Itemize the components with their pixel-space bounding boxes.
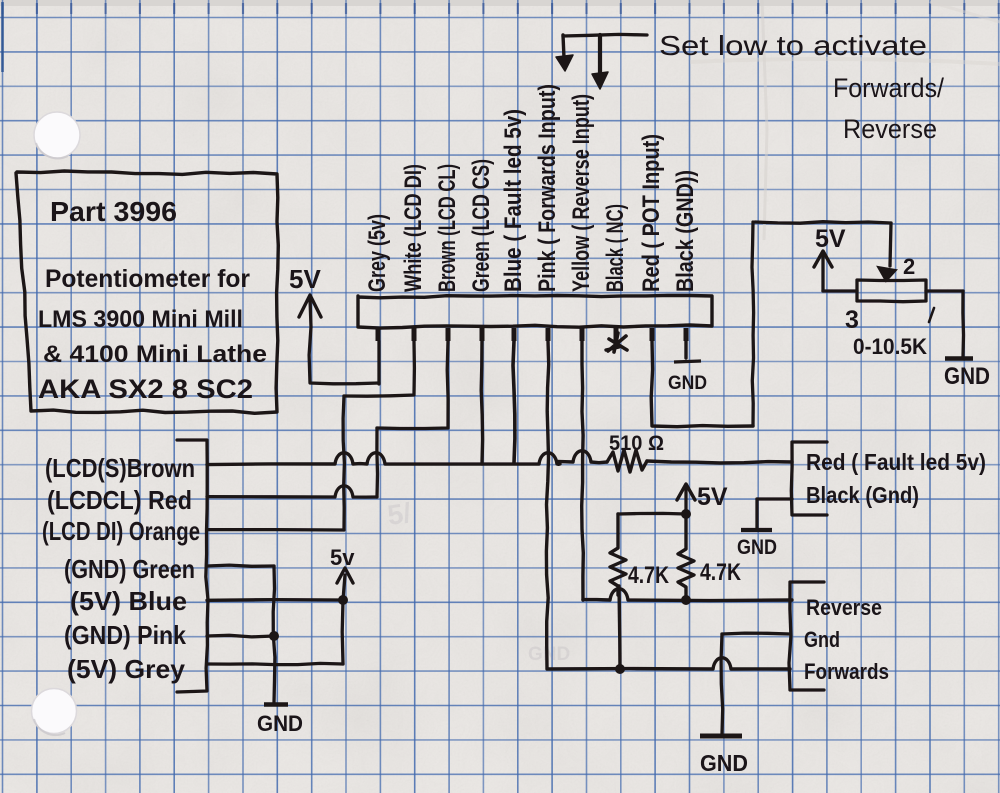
svg-text:Red ( POT Input): Red ( POT Input) [638, 134, 665, 292]
svg-text:2: 2 [903, 254, 915, 279]
svg-text:Black ( NC): Black ( NC) [602, 204, 629, 292]
svg-text:Black (Gnd): Black (Gnd) [806, 482, 919, 508]
svg-text:(LCD(S)Brown: (LCD(S)Brown [45, 453, 195, 483]
svg-text:AKA SX2 8 SC2: AKA SX2 8 SC2 [38, 374, 253, 404]
svg-text:0-10.5K: 0-10.5K [853, 334, 927, 359]
svg-text:Brown (LCD CL): Brown (LCD CL) [434, 164, 461, 292]
svg-text:(LCD DI) Orange: (LCD DI) Orange [42, 516, 200, 546]
svg-text:(GND) Pink: (GND) Pink [64, 620, 186, 650]
svg-text:Potentiometer for: Potentiometer for [45, 265, 250, 293]
svg-text:3: 3 [845, 306, 859, 334]
svg-text:GND: GND [737, 536, 777, 559]
svg-text:Reverse: Reverse [843, 114, 937, 144]
svg-text:Red ( Fault led 5v): Red ( Fault led 5v) [806, 449, 986, 475]
svg-text:LMS 3900 Mini Mill: LMS 3900 Mini Mill [38, 306, 243, 333]
svg-text:Reverse: Reverse [806, 595, 882, 620]
svg-text:(5V) Blue: (5V) Blue [70, 586, 187, 616]
svg-text:4.7K: 4.7K [700, 559, 742, 586]
svg-text:Blue ( Fault led 5v): Blue ( Fault led 5v) [500, 109, 527, 292]
svg-text:Black (GND)): Black (GND)) [672, 170, 699, 292]
svg-text:Forwards: Forwards [804, 659, 889, 684]
svg-text:Grey (5v): Grey (5v) [364, 214, 391, 292]
svg-text:Pink ( Forwards Input): Pink ( Forwards Input) [534, 84, 561, 292]
svg-text:5/: 5/ [386, 497, 414, 531]
svg-text:(GND) Green: (GND) Green [64, 554, 195, 584]
svg-text:4.7K: 4.7K [628, 562, 670, 589]
svg-text:GND: GND [257, 711, 303, 736]
svg-text:Yellow ( Reverse Input): Yellow ( Reverse Input) [568, 94, 595, 292]
svg-text:(LCDCL) Red: (LCDCL) Red [47, 485, 192, 515]
svg-text:GND: GND [668, 372, 707, 394]
svg-text:GND: GND [528, 644, 570, 665]
svg-text:Part 3996: Part 3996 [50, 196, 177, 227]
svg-text:5V: 5V [697, 483, 728, 511]
svg-text:Green (LCD CS): Green (LCD CS) [468, 159, 495, 292]
svg-text:Set low to activate: Set low to activate [659, 30, 927, 61]
svg-text:Forwards/: Forwards/ [833, 73, 944, 103]
svg-text:White (LCD DI): White (LCD DI) [400, 164, 427, 292]
svg-text:& 4100 Mini Lathe: & 4100 Mini Lathe [43, 341, 267, 368]
svg-text:5V: 5V [289, 264, 321, 294]
svg-text:Gnd: Gnd [804, 627, 840, 652]
svg-text:510 Ω: 510 Ω [609, 432, 664, 455]
svg-text:GND: GND [700, 750, 748, 776]
svg-text:5V: 5V [815, 225, 846, 253]
svg-text:GND: GND [944, 363, 990, 390]
svg-text:5v: 5v [330, 545, 355, 570]
svg-text:(5V) Grey: (5V) Grey [67, 654, 186, 684]
